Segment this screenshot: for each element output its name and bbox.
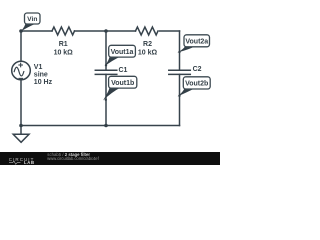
junction dot: ground node on bottom rail [19,124,23,128]
net flag Vout1a [105,45,136,66]
svg-text:10 kΩ: 10 kΩ [54,49,74,56]
svg-text:www.circuitlab.com/c/abc4ef: www.circuitlab.com/c/abc4ef [47,156,99,161]
node Vout1a (junction dot) [104,29,108,33]
watermark bar [0,152,220,165]
wire top rail: Vin node to R1 [21,30,52,32]
svg-text:Vout1b: Vout1b [111,80,134,87]
wire right branch: top rail down to C2 [179,31,181,70]
wire top rail: R1 to node Vout1a [75,30,136,32]
voltage source V1 sine 10 Hz [12,61,31,80]
svg-text:Vin: Vin [27,16,37,23]
svg-text:Vout1a: Vout1a [111,49,134,56]
svg-text:Vout2b: Vout2b [185,81,208,88]
junction dot: middle branch on bottom rail [104,124,108,128]
svg-text:sine: sine [34,72,48,79]
wire right branch: C2 down to bottom rail [179,74,181,125]
wire left branch: V1 down to ground node [20,80,22,126]
svg-text:C1: C1 [119,67,128,74]
wire middle branch: node Vout1a down to C1 [105,31,107,70]
svg-text:10 kΩ: 10 kΩ [138,49,158,56]
capacitor C2 [169,70,191,74]
ground [13,126,29,143]
svg-text:LAB: LAB [24,160,35,165]
net flag Vout2b [178,77,211,97]
net flag Vout2a [177,35,209,53]
svg-text:V1: V1 [34,64,43,71]
wire left branch: Vin node down to V1 [20,31,22,61]
svg-text:R2: R2 [143,41,152,48]
net flag Vin [21,13,40,32]
wire top rail: R2 to right corner [160,30,180,32]
wire middle branch: C1 down to bottom rail [105,74,107,125]
net flag Vout1b [103,76,137,101]
resistor R2 [136,27,159,35]
capacitor C1 [95,70,117,74]
resistor R1 [52,27,75,35]
node Vin (junction dot) [19,29,23,33]
svg-text:C2: C2 [193,66,202,73]
wire bottom rail [21,125,180,127]
svg-text:R1: R1 [59,41,68,48]
svg-text:Vout2a: Vout2a [185,39,208,46]
svg-text:10 Hz: 10 Hz [34,79,53,86]
